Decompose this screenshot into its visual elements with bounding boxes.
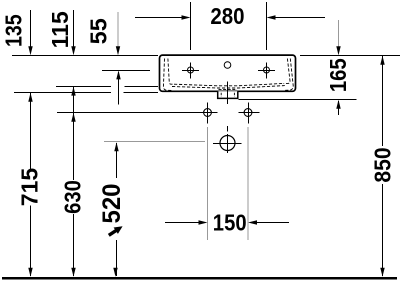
rim extension line left — [12, 55, 158, 57]
fixing hole left — [204, 103, 212, 124]
siphon outlet circle — [213, 134, 242, 153]
basin bottom extension line (135/715 ref) — [14, 92, 158, 94]
drain centerline — [227, 82, 229, 132]
svg-text:150: 150 — [213, 209, 247, 236]
dimension 135 upper leader with down arrow — [28, 10, 32, 55]
fixing hole extension line (630 ref) — [57, 112, 218, 114]
svg-text:630: 630 — [59, 180, 86, 214]
svg-text:850: 850 — [369, 147, 395, 182]
dimension 715 floor arrow (down) — [28, 268, 32, 277]
basin bowl bottom dashes across drain — [172, 83, 285, 88]
dimension 520 floor arrow (down) — [113, 268, 117, 277]
inner bottom extension line (115 ref) — [56, 86, 158, 88]
rim extension line right — [300, 55, 400, 57]
overflow hole — [224, 62, 231, 69]
drain inner dashed walls — [221, 93, 234, 97]
adjustable height arrow glyph — [109, 226, 123, 235]
svg-text:715: 715 — [17, 168, 43, 207]
dimension 55 lower arrow (up) with tail — [116, 70, 120, 104]
dimension 280 extension line left — [190, 2, 192, 50]
tap hole right — [258, 62, 275, 78]
dimension 280 leader right with arrow — [267, 15, 326, 19]
drain bottom extension line (165 ref) — [239, 99, 357, 101]
dimension 135 lower arrow (up) at 90.5 (shared with 715) — [28, 93, 32, 102]
dimension 150 leader right with arrow — [248, 220, 289, 224]
150 extension line right (gray) — [247, 127, 249, 240]
vertical dim line x=116.5 (520) — [116, 143, 118, 276]
svg-text:165: 165 — [325, 58, 352, 92]
svg-text:520: 520 — [99, 183, 127, 223]
dimension 165 lower arrow (up) with tail — [336, 100, 340, 115]
drain bowl lowest dashes — [219, 89, 238, 91]
floor line — [2, 277, 397, 280]
dimension 280 leader left with arrow — [135, 15, 191, 19]
dimension 850 line with arrows — [380, 56, 384, 277]
fixing hole right — [239, 103, 260, 124]
svg-text:55: 55 — [86, 18, 112, 44]
basin inner bowl dashed contour 1 — [163, 59, 174, 91]
dimension 55 upper leader with down arrow — [116, 12, 120, 55]
dimension 115 upper leader with down arrow — [71, 10, 75, 55]
dimension 630 upper arrow (up) at 112.5 — [71, 113, 75, 122]
dimension 165 upper leader with down arrow — [336, 20, 340, 55]
150 extension line left (gray) — [207, 127, 209, 240]
dimension 520 upper arrow (up) at 142 — [114, 142, 118, 151]
dimension 150 leader left with arrow — [165, 220, 208, 224]
dimension 115 lower arrow (up) at 86.5 — [71, 87, 75, 96]
tap hole left — [182, 62, 199, 78]
tap level extension line — [102, 70, 150, 72]
drain outlet — [218, 91, 238, 98]
vertical dim line x=30.5 (715) — [30, 93, 32, 276]
svg-text:280: 280 — [210, 3, 244, 29]
svg-text:115: 115 — [47, 11, 73, 48]
svg-text:135: 135 — [1, 14, 27, 47]
dimension 280 extension line right — [266, 2, 268, 50]
dimension 630 floor arrow (down) — [71, 268, 75, 277]
basin inner bowl dashed contour 2 — [284, 59, 294, 91]
vertical dim line x=73.5 (115 tail + 630) — [73, 87, 75, 276]
siphon level gray line (520 ref) — [104, 141, 205, 143]
washbasin outer body — [160, 55, 296, 91]
